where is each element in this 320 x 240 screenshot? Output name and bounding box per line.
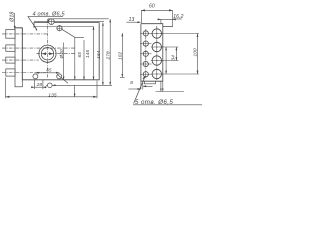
dim vline 278 xyxy=(109,19,111,85)
small hole 2 xyxy=(143,41,148,46)
stub 2 xyxy=(6,45,15,51)
bottom dim exts right view xyxy=(161,81,163,91)
hole 2 xyxy=(57,26,62,31)
svg-text:100: 100 xyxy=(192,48,197,57)
svg-text:Ø40: Ø40 xyxy=(59,49,64,60)
small hole 5 xyxy=(143,72,148,77)
large hole 1 xyxy=(152,29,161,38)
small hole column centerline xyxy=(145,29,147,78)
dim 8 exts xyxy=(141,81,143,89)
small hole v ticks xyxy=(145,30,147,78)
small hole 1 xyxy=(143,31,148,36)
hole2 ticks xyxy=(56,25,62,31)
centerline stub3 xyxy=(2,59,39,61)
dim 60 line xyxy=(141,9,172,11)
bore diameter arrows xyxy=(41,52,53,55)
ext 135 left xyxy=(5,78,7,99)
step line y26.5 xyxy=(34,26,94,28)
dim 135 line xyxy=(6,96,98,98)
bore v-centerline xyxy=(47,19,49,78)
centerline stub4 xyxy=(2,72,46,74)
dim vline 164 xyxy=(98,24,100,76)
svg-text:13: 13 xyxy=(129,17,135,23)
top ext line xyxy=(48,18,109,20)
long line y85.3 xyxy=(46,84,112,86)
big bore outer circle xyxy=(39,45,56,62)
svg-text:60: 60 xyxy=(149,4,155,10)
big bore inner circle xyxy=(41,48,53,60)
svg-text:8: 8 xyxy=(130,80,133,86)
large hole center dots xyxy=(156,33,157,34)
dim vline 93.5 xyxy=(93,27,95,80)
top line y21.4 xyxy=(34,20,104,22)
dia18 dim line xyxy=(14,13,16,29)
small hole 3 xyxy=(143,51,148,56)
svg-text:65: 65 xyxy=(46,68,52,73)
stub 1 xyxy=(6,30,15,39)
bore h-centerline xyxy=(37,53,75,55)
dim 28 line xyxy=(31,86,46,88)
5otv underline xyxy=(133,104,202,106)
dim vline 102 xyxy=(121,33,123,77)
svg-text:146: 146 xyxy=(85,49,90,58)
arrow at circle xyxy=(52,84,55,86)
top hole on edge xyxy=(49,19,55,25)
dim vline 65 xyxy=(74,37,76,80)
dim 34 vline xyxy=(175,47,177,61)
stub 3 xyxy=(6,57,15,63)
body outline xyxy=(15,23,99,80)
dim line bottom holes xyxy=(35,72,59,74)
dim vline 40 xyxy=(63,43,65,80)
svg-text:102: 102 xyxy=(118,51,123,60)
dim 8 arrow right xyxy=(143,85,153,87)
leader hole2 xyxy=(62,29,84,37)
top hole tick xyxy=(48,19,51,25)
svg-text:135: 135 xyxy=(48,92,57,98)
small hole centerlines xyxy=(140,33,152,74)
large hole crosses xyxy=(151,28,163,81)
leader 4otv xyxy=(28,16,37,29)
plate outline xyxy=(141,24,173,81)
dim 8 arrow left xyxy=(129,88,141,90)
dim 16,2 xyxy=(158,18,177,20)
svg-text:65: 65 xyxy=(77,52,82,58)
bottom line y91.5 xyxy=(156,91,185,93)
seg at 102 bottom xyxy=(120,76,125,78)
centerline stub2 xyxy=(2,47,75,49)
svg-text:34: 34 xyxy=(170,55,175,61)
svg-text:Ø18: Ø18 xyxy=(10,12,16,23)
dim 13 xyxy=(126,21,140,23)
dim vline 146 xyxy=(83,40,85,80)
svg-text:5 отв. Ø6,5: 5 отв. Ø6,5 xyxy=(135,99,173,106)
ledge right edge xyxy=(172,10,174,26)
vline x74.6 lower xyxy=(74,85,76,97)
small hole 4 xyxy=(143,61,148,66)
ext 135 right xyxy=(96,81,98,99)
dim 100 vline xyxy=(197,34,199,75)
foot xyxy=(144,81,155,84)
dim vline 103 xyxy=(102,23,104,86)
svg-text:278: 278 xyxy=(105,51,110,61)
svg-text:16,2: 16,2 xyxy=(173,14,183,20)
dim 28 ext lines xyxy=(34,80,43,89)
circle on line xyxy=(48,83,53,88)
diag leader bottom xyxy=(58,75,69,83)
large hole 4 xyxy=(152,69,161,78)
large hole 2 xyxy=(152,42,161,51)
left flange plate xyxy=(15,28,22,87)
large hole 3 xyxy=(152,56,161,65)
svg-text:164: 164 xyxy=(96,50,101,59)
hole column centerline xyxy=(156,26,158,81)
leader 5otv xyxy=(134,77,145,104)
bottom hole left xyxy=(33,74,38,79)
dim vline x166 xyxy=(165,47,167,74)
svg-text:28: 28 xyxy=(36,82,43,88)
dim 60 left ext xyxy=(140,10,142,23)
hole ext lines right xyxy=(161,34,200,75)
stub 4 xyxy=(6,69,15,76)
centerline stub1 xyxy=(2,33,48,35)
bottom hole right xyxy=(57,74,62,79)
